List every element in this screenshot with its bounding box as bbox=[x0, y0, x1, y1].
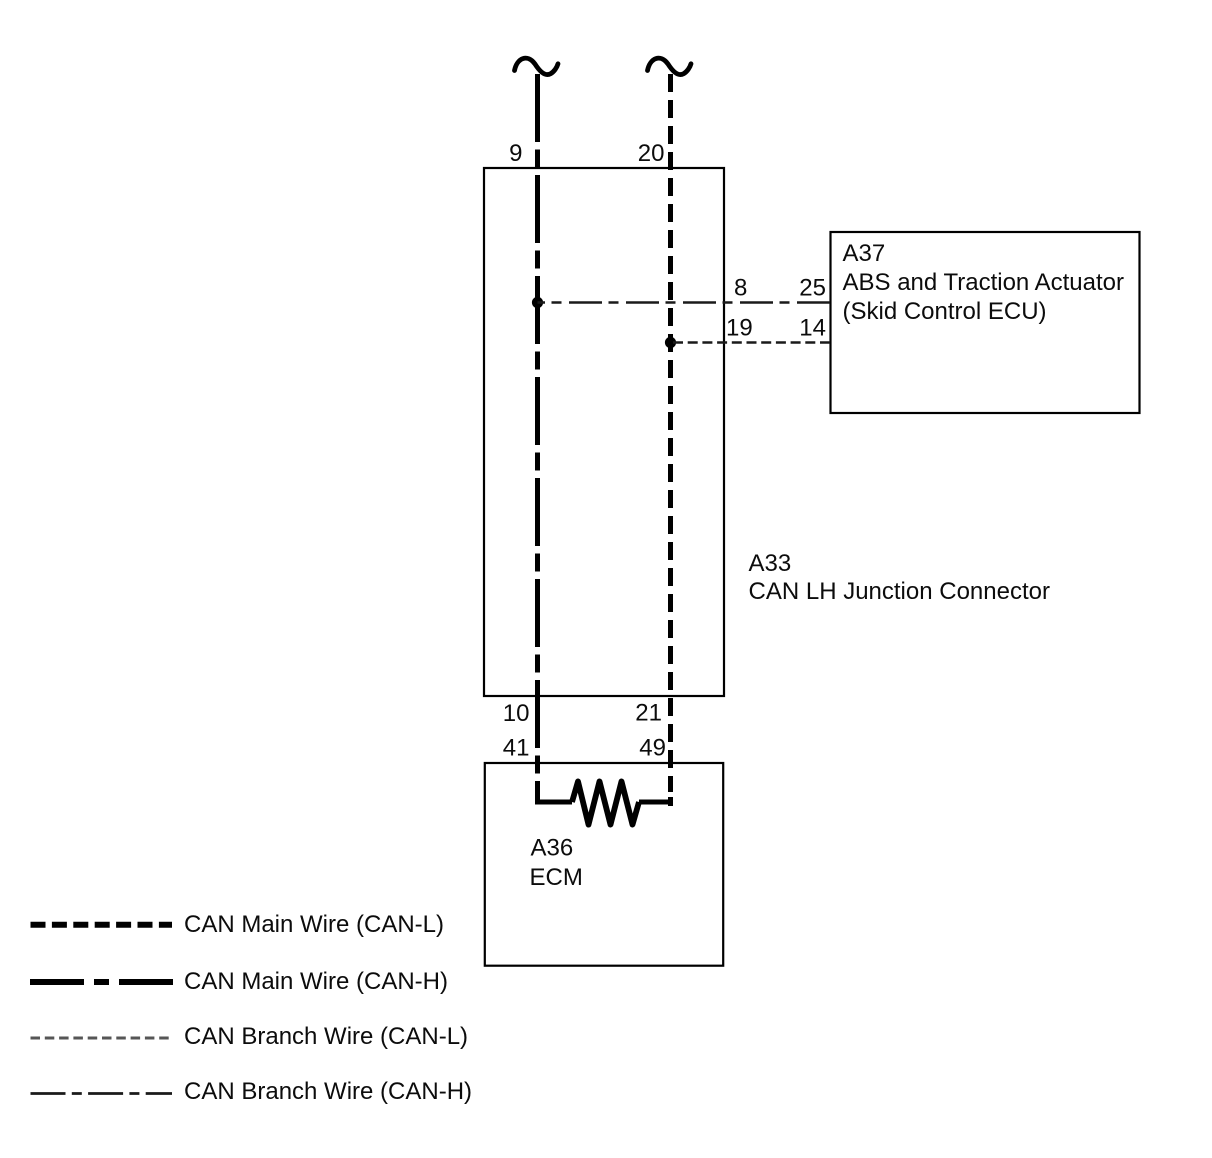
node: CAN-H junction dot bbox=[532, 297, 543, 308]
legend sample: CAN Branch Wire CAN-H (thin dash-dot) bbox=[31, 1092, 173, 1095]
node: CAN-L junction dot bbox=[665, 337, 676, 348]
wire break symbol (top of CAN-L main wire) bbox=[648, 58, 692, 74]
legend sample: CAN Main Wire CAN-H (heavy dash-dot) bbox=[30, 979, 174, 985]
junction connector A33 box bbox=[484, 168, 724, 696]
svg-text:14: 14 bbox=[799, 315, 826, 342]
svg-text:10: 10 bbox=[503, 700, 530, 727]
svg-text:(Skid Control ECU): (Skid Control ECU) bbox=[843, 298, 1047, 325]
ABS actuator A37 box bbox=[831, 232, 1140, 413]
svg-text:49: 49 bbox=[639, 735, 666, 762]
svg-text:19: 19 bbox=[726, 315, 753, 342]
svg-text:25: 25 bbox=[799, 275, 826, 302]
svg-text:21: 21 bbox=[635, 700, 662, 727]
svg-text:A33: A33 bbox=[749, 550, 792, 577]
svg-text:CAN Branch Wire (CAN-L): CAN Branch Wire (CAN-L) bbox=[184, 1023, 468, 1050]
wire: CAN-H branch wire to A37 (thin dash-dot) bbox=[538, 301, 831, 304]
ECM A36 box bbox=[485, 763, 723, 966]
svg-text:CAN Branch Wire (CAN-H): CAN Branch Wire (CAN-H) bbox=[184, 1078, 472, 1105]
wire break symbol (top of CAN-H main wire) bbox=[515, 58, 559, 74]
wire: CAN-H elbow into ECM (solid heavy) bbox=[538, 786, 573, 802]
wire: CAN-L corner stub at resistor bbox=[668, 797, 673, 806]
svg-text:41: 41 bbox=[503, 735, 530, 762]
svg-text:CAN LH Junction Connector: CAN LH Junction Connector bbox=[749, 578, 1050, 605]
resistor (terminating resistor zigzag inside ECM) bbox=[572, 781, 639, 824]
svg-text:9: 9 bbox=[509, 140, 522, 167]
legend sample: CAN Branch Wire CAN-L (thin dashed) bbox=[31, 1037, 170, 1040]
svg-text:A37: A37 bbox=[843, 240, 886, 267]
wire: CAN-H main wire vertical (heavy dash-dot) bbox=[535, 74, 540, 788]
svg-text:ECM: ECM bbox=[530, 864, 583, 891]
legend sample: CAN Main Wire CAN-L (heavy dashed) bbox=[31, 922, 173, 928]
wire: CAN-L main wire vertical (heavy dashed) bbox=[668, 74, 673, 792]
svg-text:8: 8 bbox=[734, 275, 747, 302]
svg-text:20: 20 bbox=[638, 140, 665, 167]
svg-text:CAN Main Wire (CAN-L): CAN Main Wire (CAN-L) bbox=[184, 911, 444, 938]
wire: CAN-L branch wire to A37 (thin dashed) bbox=[671, 341, 831, 344]
wire: resistor right lead (solid heavy) bbox=[639, 800, 673, 805]
svg-text:ABS and Traction Actuator: ABS and Traction Actuator bbox=[843, 269, 1125, 296]
svg-text:CAN Main Wire (CAN-H): CAN Main Wire (CAN-H) bbox=[184, 968, 448, 995]
svg-text:A36: A36 bbox=[531, 835, 574, 862]
